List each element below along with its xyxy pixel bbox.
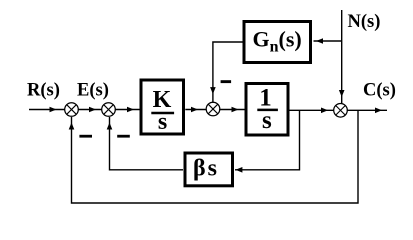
wire S3 to block 1/s — [219, 107, 246, 113]
wire S1 to S2 — [78, 107, 102, 113]
wire output C(s) — [347, 108, 387, 114]
svg-text:R(s): R(s) — [27, 80, 60, 100]
wire branch to beta-s block — [235, 110, 300, 172]
minus sign at S3 — [221, 80, 232, 83]
wire K/s to S3 — [185, 107, 207, 113]
minus sign at S1 — [79, 135, 92, 138]
block K/s — [141, 80, 184, 135]
summing junction S4 — [334, 104, 348, 118]
wire Gn(s) output down to S3 — [210, 42, 243, 103]
svg-text:s: s — [158, 109, 167, 135]
wire N(s) input vertical — [339, 10, 345, 104]
block beta-s — [185, 153, 233, 186]
summing junction S2 — [102, 103, 116, 117]
svg-text:C(s): C(s) — [363, 81, 396, 101]
minus sign at S2 — [117, 135, 130, 138]
wire beta-s output up to S2 — [107, 117, 183, 170]
wire 1/s to S4 — [288, 108, 334, 114]
svg-text:N(s): N(s) — [348, 12, 381, 32]
block Gn(s) — [244, 22, 311, 63]
wire input R(s) — [29, 107, 65, 113]
wire S2 to block K/s — [115, 107, 140, 113]
svg-text:s: s — [262, 107, 272, 134]
block 1/s — [246, 84, 288, 136]
wire outer feedback loop — [69, 110, 358, 203]
svg-text:E(s): E(s) — [77, 81, 109, 101]
summing junction S3 — [206, 102, 220, 116]
wire N(s) branch into Gn(s) — [314, 38, 342, 44]
svg-text:β s: β s — [193, 156, 217, 182]
summing junction S1 — [65, 103, 79, 117]
